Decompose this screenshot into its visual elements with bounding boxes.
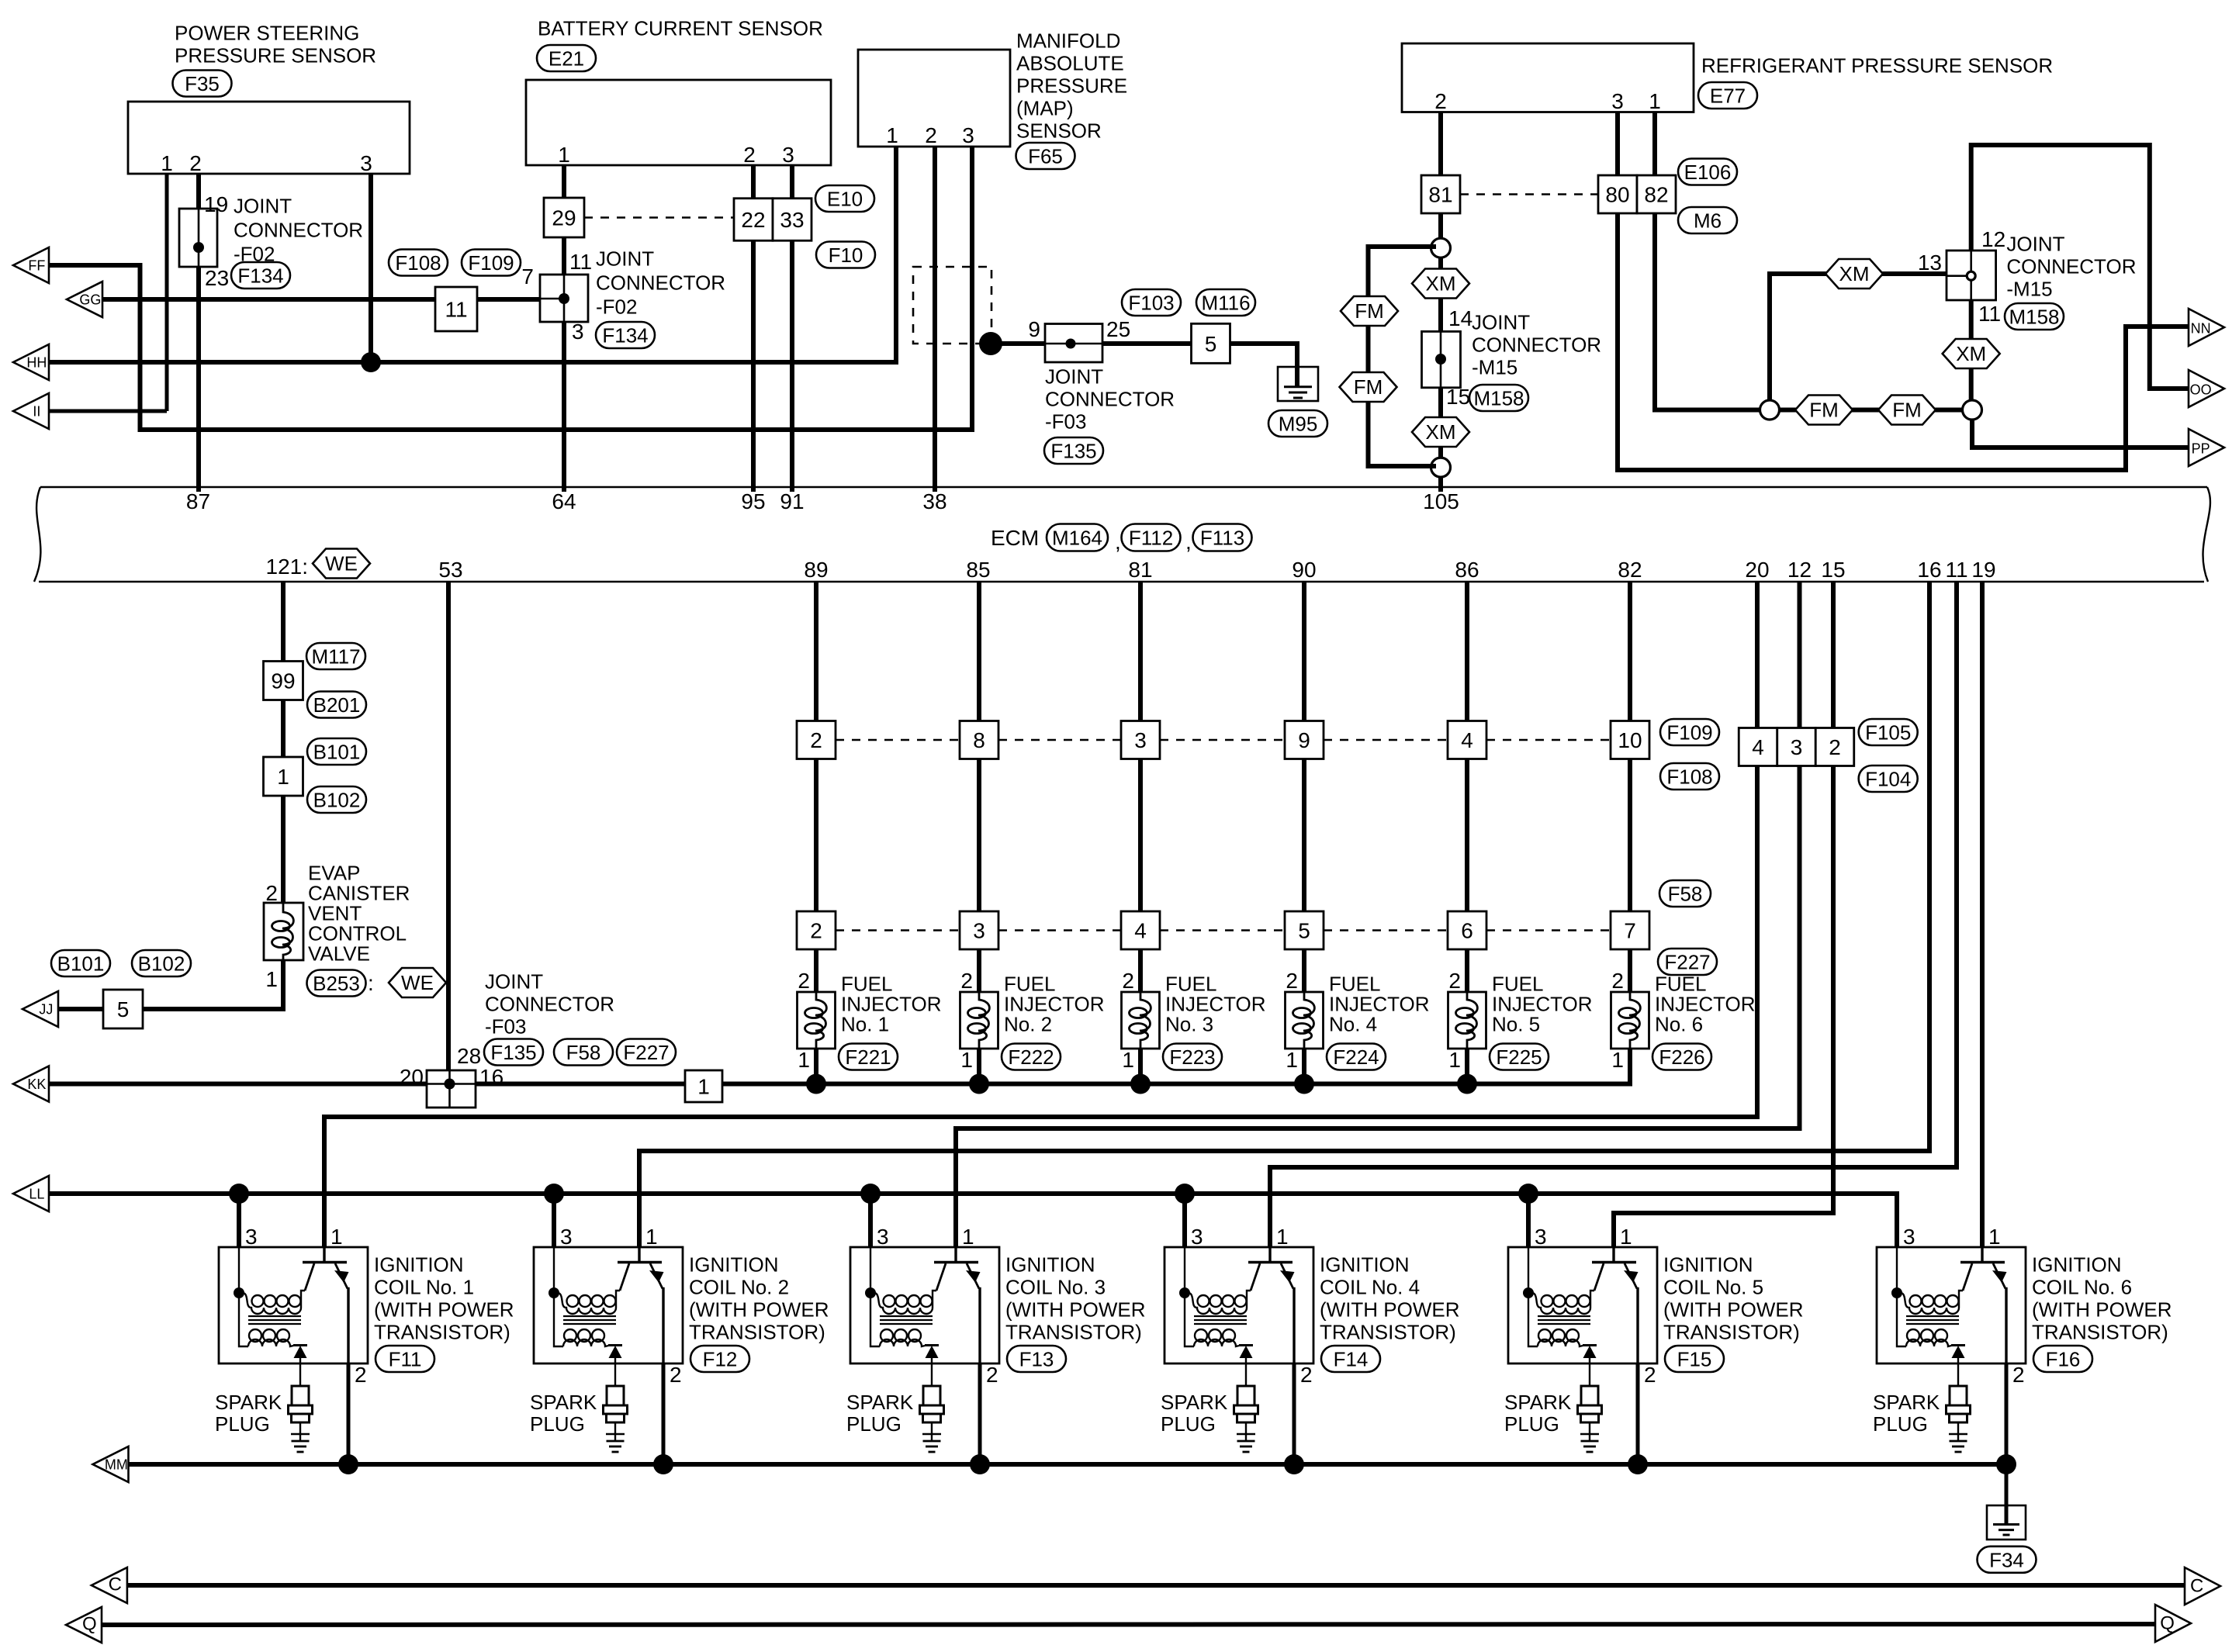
wire LL to coil No. 3 pin3 bbox=[868, 1194, 873, 1247]
KK bus wire / injector 6 drain bbox=[49, 582, 1630, 1084]
ignition coil No. 4 (F14) with power transistor bbox=[1164, 1247, 1313, 1363]
joint connector -F02 box (7/11) bbox=[540, 275, 588, 322]
harness dashed link 81-80 bbox=[1460, 193, 1598, 195]
off-page arrow GG bbox=[67, 282, 102, 317]
harness dashed link row1 bbox=[1486, 739, 1611, 741]
code hexagon WE (B253) bbox=[389, 968, 446, 997]
svg-text:15: 15 bbox=[1446, 385, 1470, 409]
svg-text:JOINT: JOINT bbox=[485, 970, 543, 994]
svg-text:1: 1 bbox=[1276, 1225, 1289, 1249]
wire F35 pin1 down bbox=[165, 174, 169, 411]
svg-text:3: 3 bbox=[877, 1225, 889, 1249]
connector label B101 #2 bbox=[51, 950, 110, 976]
svg-text:3: 3 bbox=[1903, 1225, 1915, 1249]
svg-text:CONNECTOR: CONNECTOR bbox=[485, 993, 614, 1016]
svg-text:F105: F105 bbox=[1865, 721, 1911, 745]
svg-text:20: 20 bbox=[1745, 558, 1769, 582]
svg-text:1: 1 bbox=[645, 1225, 658, 1249]
connector label B253 bbox=[307, 970, 366, 997]
spark plug (coil No. 1) bbox=[289, 1363, 313, 1452]
wire LL to coil No. 2 pin3 bbox=[552, 1194, 556, 1247]
wire E77 pin1 to FM chain bbox=[1655, 112, 1963, 410]
junction LL / coil No. 5 pin3 bbox=[1518, 1184, 1538, 1204]
wire ECM 16 to ignition coil No.2 pin1 bbox=[639, 582, 1929, 1247]
connector label F223 bbox=[1163, 1044, 1222, 1070]
svg-text:2: 2 bbox=[1300, 1363, 1313, 1387]
svg-text:3: 3 bbox=[560, 1225, 573, 1249]
svg-text:11: 11 bbox=[445, 298, 467, 322]
svg-text:1: 1 bbox=[697, 1075, 710, 1099]
wire ECM 20 to ignition coil No.1 pin1 bbox=[324, 582, 1757, 1247]
svg-text:COIL No. 1: COIL No. 1 bbox=[374, 1276, 474, 1299]
spark plug (coil No. 6) bbox=[1947, 1363, 1971, 1452]
connector label M6 bbox=[1678, 207, 1737, 233]
wire LL to coil No. 5 pin3 bbox=[1526, 1194, 1531, 1247]
code hexagon WE (121) bbox=[313, 549, 370, 579]
wire MM to ground F34 bbox=[2005, 1464, 2009, 1505]
svg-text:7: 7 bbox=[521, 264, 534, 289]
joint dot in F02 (7/11) bbox=[559, 293, 569, 304]
svg-text:M158: M158 bbox=[2009, 306, 2059, 329]
svg-text:-M15: -M15 bbox=[2006, 278, 2052, 301]
off-page arrow KK bbox=[13, 1066, 49, 1102]
wire ECM 11 to ignition coil No.4 pin1 bbox=[1270, 582, 1957, 1247]
svg-text:TRANSISTOR): TRANSISTOR) bbox=[2032, 1321, 2168, 1344]
MM bus wire bbox=[129, 1462, 2007, 1467]
wire ECM to fuel injector No. 3 bbox=[1138, 582, 1143, 1084]
wire HH to MAP pin1 bbox=[49, 147, 896, 362]
svg-text:SPARK: SPARK bbox=[1161, 1391, 1228, 1414]
ignition coil No. 1 (F11) with power transistor bbox=[219, 1247, 368, 1363]
svg-text:1: 1 bbox=[1286, 1048, 1298, 1072]
connector box 81 bbox=[1421, 175, 1460, 213]
wire coil No. 2 pin2 to MM bbox=[662, 1363, 666, 1464]
wire E21 pin2 to ECM 95 bbox=[751, 165, 756, 492]
svg-text:COIL No. 3: COIL No. 3 bbox=[1005, 1276, 1106, 1299]
off-page arrow Q (right) bbox=[2155, 1605, 2191, 1642]
svg-text:2: 2 bbox=[986, 1363, 998, 1387]
svg-text:22: 22 bbox=[741, 208, 765, 232]
svg-text:REFRIGERANT PRESSURE SENSOR: REFRIGERANT PRESSURE SENSOR bbox=[1701, 54, 2053, 78]
wire II to F35 pin1 bbox=[49, 410, 167, 413]
svg-text:JOINT: JOINT bbox=[1045, 365, 1103, 389]
Q bus wire bbox=[102, 1624, 2156, 1625]
wire E21 pin1 to ECM 64 bbox=[562, 165, 566, 492]
svg-text:16: 16 bbox=[479, 1065, 504, 1089]
svg-text:FM: FM bbox=[1355, 299, 1384, 323]
LL bus wire to coil pin3s bbox=[49, 1194, 1897, 1247]
junction circle FM chain left bbox=[1760, 400, 1780, 420]
svg-text:1: 1 bbox=[886, 123, 898, 147]
svg-text:2: 2 bbox=[189, 151, 202, 175]
code hexagon FM bbox=[1341, 296, 1398, 326]
svg-text:HH: HH bbox=[26, 355, 47, 371]
svg-text:1: 1 bbox=[558, 143, 570, 167]
svg-text:2: 2 bbox=[810, 919, 822, 943]
connector label F103 bbox=[1122, 289, 1181, 316]
svg-text:F14: F14 bbox=[1334, 1348, 1369, 1371]
connector label M116 bbox=[1196, 289, 1255, 316]
connector label F134 bbox=[231, 262, 290, 289]
connector label F108 bbox=[389, 250, 448, 276]
svg-text:12: 12 bbox=[1787, 558, 1812, 582]
wire GG to joint connector F02 bbox=[102, 297, 540, 302]
wire joint connector M15 pin13 branch bbox=[1770, 274, 1947, 400]
connector label F10 bbox=[816, 242, 875, 268]
connector label F104 bbox=[1859, 766, 1918, 792]
svg-text:M117: M117 bbox=[311, 645, 360, 669]
harness dashed link 29-22 bbox=[584, 216, 734, 219]
connector box 1 (EVAP) bbox=[264, 757, 303, 796]
svg-text:F104: F104 bbox=[1865, 768, 1911, 791]
off-page arrow MM bbox=[93, 1446, 129, 1482]
svg-text:PP: PP bbox=[2192, 441, 2210, 457]
svg-text:1: 1 bbox=[1620, 1225, 1632, 1249]
code hexagon FM #2 bbox=[1340, 372, 1397, 402]
svg-text:ABSOLUTE: ABSOLUTE bbox=[1016, 52, 1124, 75]
svg-text:3: 3 bbox=[1791, 735, 1803, 759]
svg-text:1: 1 bbox=[1611, 1048, 1624, 1072]
svg-text:2: 2 bbox=[960, 969, 973, 993]
svg-text:4: 4 bbox=[1752, 735, 1764, 759]
svg-text:9: 9 bbox=[1028, 317, 1040, 341]
svg-text:COIL No. 2: COIL No. 2 bbox=[689, 1276, 789, 1299]
connector label F109 bbox=[462, 250, 521, 276]
connector label F109 #2 bbox=[1660, 719, 1719, 745]
connector label F16 bbox=[2033, 1346, 2092, 1372]
spark plug (coil No. 3) bbox=[920, 1363, 944, 1452]
connector box 29 bbox=[544, 198, 584, 237]
svg-text:(WITH POWER: (WITH POWER bbox=[1320, 1298, 1460, 1322]
code hexagon XM #2 bbox=[1412, 417, 1469, 447]
wire E77 pin2 to ECM 105 bbox=[1438, 112, 1443, 492]
svg-text:3: 3 bbox=[245, 1225, 258, 1249]
svg-text:F16: F16 bbox=[2046, 1348, 2081, 1371]
svg-text:SPARK: SPARK bbox=[1873, 1391, 1940, 1414]
svg-text:F134: F134 bbox=[602, 324, 648, 347]
fuel injector No. 1 (F221) bbox=[798, 992, 836, 1049]
svg-text:No. 1: No. 1 bbox=[841, 1013, 889, 1036]
svg-text:4: 4 bbox=[1134, 919, 1147, 943]
svg-text:2: 2 bbox=[2012, 1363, 2025, 1387]
svg-text:53: 53 bbox=[438, 558, 462, 582]
fuel injector No. 4 (F224) bbox=[1286, 992, 1324, 1049]
svg-text:1: 1 bbox=[1649, 89, 1661, 113]
connector label F58 bbox=[554, 1039, 613, 1066]
svg-text:No. 6: No. 6 bbox=[1655, 1013, 1703, 1036]
ignition coil No. 5 (F15) with power transistor bbox=[1508, 1247, 1657, 1363]
junction KK / injector No. 3 bbox=[1130, 1074, 1151, 1094]
svg-text:JOINT: JOINT bbox=[234, 195, 292, 218]
svg-text:CONNECTOR: CONNECTOR bbox=[2006, 255, 2136, 278]
svg-text:No. 2: No. 2 bbox=[1004, 1013, 1052, 1036]
junction LL / coil No. 2 pin3 bbox=[544, 1184, 564, 1204]
connector label F135 #2 bbox=[484, 1039, 543, 1066]
junction KK / injector No. 4 bbox=[1294, 1074, 1314, 1094]
svg-text:JJ: JJ bbox=[39, 1002, 53, 1018]
svg-text:B102: B102 bbox=[138, 952, 185, 976]
off-page arrow II bbox=[13, 393, 49, 429]
wire M15 pin12 to OO bbox=[1971, 145, 2189, 389]
harness dashed link row2 bbox=[836, 929, 960, 931]
svg-text:2: 2 bbox=[670, 1363, 682, 1387]
svg-text:3: 3 bbox=[1535, 1225, 1547, 1249]
svg-text:89: 89 bbox=[804, 558, 828, 582]
code hexagon XM bbox=[1412, 269, 1469, 299]
svg-text:FM: FM bbox=[1892, 399, 1922, 422]
connector box 3 (coil row) bbox=[1777, 728, 1816, 766]
svg-text:87: 87 bbox=[186, 489, 210, 513]
svg-text:F109: F109 bbox=[468, 251, 514, 275]
junction circle above ECM 105 bbox=[1431, 458, 1451, 477]
connector label M95 bbox=[1268, 410, 1327, 437]
junction MM / coil No. 3 pin2 bbox=[970, 1454, 990, 1474]
svg-text:5: 5 bbox=[117, 997, 130, 1021]
svg-text:GG: GG bbox=[79, 292, 101, 308]
svg-text:F113: F113 bbox=[1200, 527, 1244, 550]
code hexagon XM #4 bbox=[1943, 339, 2000, 368]
connector box 5 (injector row2) bbox=[1285, 911, 1324, 949]
connector label F108 #2 bbox=[1660, 763, 1719, 790]
svg-text:3: 3 bbox=[572, 320, 584, 344]
joint connector -M15 box (14/15) bbox=[1422, 331, 1461, 387]
connector box 1 (KK) bbox=[685, 1070, 722, 1102]
svg-text:II: II bbox=[33, 404, 40, 420]
svg-text:Q: Q bbox=[82, 1614, 97, 1635]
off-page arrow HH bbox=[13, 344, 49, 380]
svg-text:B101: B101 bbox=[57, 952, 105, 976]
svg-text:CONNECTOR: CONNECTOR bbox=[1045, 388, 1175, 411]
joint connector -F03 box (9/25) bbox=[1045, 324, 1102, 363]
spark plug (coil No. 4) bbox=[1234, 1363, 1258, 1452]
wire LL to coil No. 1 pin3 bbox=[237, 1194, 241, 1247]
svg-text:F227: F227 bbox=[1664, 951, 1710, 974]
wire coil No. 5 pin2 to MM bbox=[1636, 1363, 1640, 1464]
svg-text:COIL No. 6: COIL No. 6 bbox=[2032, 1276, 2132, 1299]
svg-text:3: 3 bbox=[1191, 1225, 1203, 1249]
svg-text:F226: F226 bbox=[1659, 1045, 1704, 1069]
wire ECM 53 to joint connector F03 bbox=[446, 582, 451, 1108]
connector label F65 bbox=[1016, 143, 1075, 169]
connector box 11 (GG) bbox=[435, 287, 477, 331]
svg-text:1: 1 bbox=[960, 1048, 973, 1072]
code hexagon FM #4 bbox=[1878, 396, 1936, 425]
connector label B102 bbox=[307, 786, 366, 813]
connector label F15 bbox=[1665, 1346, 1724, 1372]
svg-text:95: 95 bbox=[741, 489, 765, 513]
junction KK / injector No. 2 bbox=[969, 1074, 989, 1094]
svg-text:SPARK: SPARK bbox=[1504, 1391, 1572, 1414]
svg-text:WE: WE bbox=[325, 552, 358, 575]
connector box 2 (coil row) bbox=[1815, 728, 1854, 766]
svg-text:IGNITION: IGNITION bbox=[374, 1253, 464, 1277]
svg-text:XM: XM bbox=[1426, 420, 1456, 444]
svg-text:CONNECTOR: CONNECTOR bbox=[1472, 334, 1601, 357]
svg-text:SPARK: SPARK bbox=[530, 1391, 597, 1414]
svg-text:2: 2 bbox=[1448, 969, 1461, 993]
svg-text:1: 1 bbox=[1988, 1225, 2001, 1249]
harness dashed link row2 bbox=[1160, 929, 1285, 931]
harness dashed link row1 bbox=[1324, 739, 1448, 741]
battery current sensor E21 box bbox=[526, 80, 831, 165]
svg-text:SENSOR: SENSOR bbox=[1016, 119, 1102, 143]
wire E77 pin3 to NN bbox=[1618, 112, 2189, 471]
wire ECM 15 to ignition coil No.5 pin1 bbox=[1614, 582, 1833, 1247]
connector box 4 (injector row2) bbox=[1121, 911, 1160, 949]
svg-text:TRANSISTOR): TRANSISTOR) bbox=[1663, 1321, 1800, 1344]
svg-text:13: 13 bbox=[1918, 251, 1942, 275]
wire connector 5 to ground M95 bbox=[1230, 344, 1298, 386]
svg-text:M95: M95 bbox=[1279, 413, 1318, 436]
connector box 10 (injector row1) bbox=[1611, 721, 1649, 759]
svg-text:1: 1 bbox=[277, 765, 289, 789]
svg-text:POWER STEERING: POWER STEERING bbox=[175, 22, 359, 45]
svg-text:F13: F13 bbox=[1019, 1348, 1054, 1371]
svg-text:7: 7 bbox=[1624, 919, 1636, 943]
svg-text:29: 29 bbox=[552, 206, 576, 230]
off-page arrow PP bbox=[2189, 429, 2224, 466]
svg-text:F135: F135 bbox=[1050, 440, 1096, 463]
svg-text:E77: E77 bbox=[1710, 85, 1746, 108]
connector box 80 bbox=[1598, 175, 1637, 213]
svg-text:F112: F112 bbox=[1129, 527, 1173, 550]
svg-text:CONNECTOR: CONNECTOR bbox=[234, 219, 363, 242]
svg-text:11: 11 bbox=[569, 250, 592, 274]
svg-text:FM: FM bbox=[1809, 399, 1839, 422]
connector box 4 (coil row) bbox=[1739, 728, 1777, 766]
svg-text:PLUG: PLUG bbox=[530, 1412, 585, 1436]
junction MM / coil No. 2 pin2 bbox=[653, 1454, 673, 1474]
connector label F35 bbox=[173, 71, 232, 97]
svg-text:TRANSISTOR): TRANSISTOR) bbox=[1005, 1321, 1142, 1344]
svg-text:COIL No. 4: COIL No. 4 bbox=[1320, 1276, 1420, 1299]
svg-text:105: 105 bbox=[1423, 489, 1459, 513]
svg-text:19: 19 bbox=[204, 192, 228, 216]
svg-text:2: 2 bbox=[925, 123, 937, 147]
svg-text:MANIFOLD: MANIFOLD bbox=[1016, 29, 1120, 53]
svg-text:PLUG: PLUG bbox=[1504, 1412, 1559, 1436]
connector label M158 bbox=[1469, 385, 1528, 411]
svg-text:2: 2 bbox=[743, 143, 756, 167]
joint dot in F03 (9/25) bbox=[1066, 339, 1076, 349]
svg-text:FM: FM bbox=[1354, 375, 1383, 399]
connector box 5 (JJ) bbox=[103, 990, 143, 1028]
svg-text:81: 81 bbox=[1128, 558, 1152, 582]
svg-text:-M15: -M15 bbox=[1472, 356, 1517, 379]
off-page arrow NN bbox=[2189, 309, 2224, 346]
svg-text:OO: OO bbox=[2190, 382, 2212, 398]
junction LL / coil No. 1 pin3 bbox=[229, 1184, 249, 1204]
connector label F105 bbox=[1859, 719, 1918, 745]
junction KK / injector No. 1 bbox=[806, 1074, 826, 1094]
connector label F14 bbox=[1321, 1346, 1380, 1372]
junction MM / coil No. 4 pin2 bbox=[1284, 1454, 1304, 1474]
svg-text:(MAP): (MAP) bbox=[1016, 97, 1074, 120]
harness dashed link row2 bbox=[998, 929, 1121, 931]
svg-text:3: 3 bbox=[360, 151, 372, 175]
wire FM chain to PP bbox=[1972, 419, 2189, 448]
connector label F58 #2 bbox=[1659, 880, 1711, 907]
svg-text:2: 2 bbox=[1434, 89, 1447, 113]
svg-text:85: 85 bbox=[966, 558, 990, 582]
svg-text:ECM: ECM bbox=[991, 526, 1039, 550]
off-page arrow Q (left) bbox=[66, 1607, 102, 1643]
svg-text:82: 82 bbox=[1644, 183, 1668, 207]
off-page arrow C (right) bbox=[2185, 1567, 2220, 1605]
svg-text:FF: FF bbox=[28, 258, 45, 274]
svg-text:5: 5 bbox=[1298, 919, 1310, 943]
svg-text:PLUG: PLUG bbox=[1873, 1412, 1928, 1436]
svg-text:F108: F108 bbox=[1666, 766, 1712, 789]
svg-text:3: 3 bbox=[1134, 728, 1147, 752]
svg-text:CONNECTOR: CONNECTOR bbox=[596, 271, 725, 295]
svg-text:2: 2 bbox=[355, 1363, 367, 1387]
wire E21 pin3 to ECM 91 bbox=[790, 165, 794, 492]
svg-text:2: 2 bbox=[1122, 969, 1134, 993]
svg-text:11: 11 bbox=[1978, 302, 2001, 326]
MAP sensor F65 box bbox=[858, 50, 1010, 147]
connector label F224 bbox=[1327, 1044, 1386, 1070]
svg-text:PLUG: PLUG bbox=[1161, 1412, 1216, 1436]
svg-text:TRANSISTOR): TRANSISTOR) bbox=[374, 1321, 510, 1344]
svg-text:2: 2 bbox=[810, 728, 822, 752]
joint connector -M15 box (12/13/11) bbox=[1947, 251, 1996, 300]
connector box 3 (injector row1) bbox=[1121, 721, 1160, 759]
harness dashed link row1 bbox=[1160, 739, 1285, 741]
connector label F11 bbox=[375, 1346, 434, 1372]
junction circle (E77 pin2 / FM branch) bbox=[1431, 238, 1451, 257]
svg-text:IGNITION: IGNITION bbox=[689, 1253, 779, 1277]
connector label B201 bbox=[307, 692, 366, 718]
svg-text:23: 23 bbox=[205, 266, 229, 290]
svg-text:2: 2 bbox=[1286, 969, 1298, 993]
svg-text:-F02: -F02 bbox=[596, 295, 637, 319]
svg-text:(WITH POWER: (WITH POWER bbox=[689, 1298, 829, 1322]
svg-text:121:: 121: bbox=[266, 555, 309, 579]
svg-text:12: 12 bbox=[1981, 227, 2005, 251]
svg-text:MM: MM bbox=[105, 1457, 128, 1473]
connector label B101 bbox=[307, 738, 366, 765]
svg-text:M164: M164 bbox=[1052, 527, 1102, 550]
svg-text:JOINT: JOINT bbox=[596, 247, 654, 271]
code hexagon XM #3 bbox=[1825, 259, 1883, 289]
svg-text:,: , bbox=[1115, 530, 1121, 554]
wire ECM to fuel injector No. 2 bbox=[977, 582, 981, 1084]
joint dot in M15 (14/15) bbox=[1435, 354, 1446, 365]
svg-text:M158: M158 bbox=[1473, 387, 1524, 410]
connector box 82 bbox=[1637, 175, 1676, 213]
connector box 22 bbox=[734, 199, 773, 241]
junction circle FM chain right bbox=[1963, 400, 1982, 420]
svg-text:PRESSURE SENSOR: PRESSURE SENSOR bbox=[175, 44, 376, 67]
svg-text:PLUG: PLUG bbox=[215, 1412, 270, 1436]
svg-text:-F03: -F03 bbox=[1045, 410, 1086, 434]
wire F35 pin2 to ECM 87 bbox=[196, 174, 201, 492]
svg-text:28: 28 bbox=[457, 1044, 481, 1068]
svg-text:15: 15 bbox=[1821, 558, 1845, 582]
svg-text:F10: F10 bbox=[829, 244, 863, 267]
junction MM / coil No. 1 pin2 bbox=[338, 1454, 358, 1474]
svg-text:38: 38 bbox=[922, 489, 946, 513]
off-page arrow C (left) bbox=[92, 1567, 127, 1603]
ECM band right torn edge bbox=[2203, 487, 2210, 582]
svg-text:IGNITION: IGNITION bbox=[1663, 1253, 1753, 1277]
svg-text:B102: B102 bbox=[313, 789, 361, 812]
off-page arrow OO bbox=[2189, 370, 2224, 407]
spark plug (coil No. 2) bbox=[604, 1363, 628, 1452]
svg-text:90: 90 bbox=[1292, 558, 1316, 582]
refrigerant pressure sensor E77 box bbox=[1402, 43, 1694, 112]
